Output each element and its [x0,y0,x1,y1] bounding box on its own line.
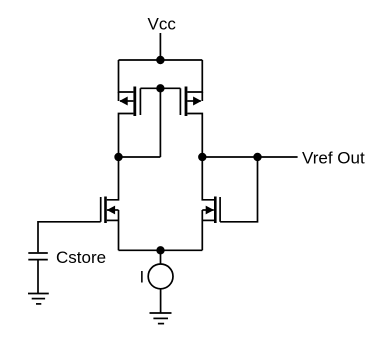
current source I (circle) [148,264,173,289]
wire current source to ground [160,289,162,313]
M2 body line [201,92,203,101]
M4 gate lead [220,157,257,222]
wire Vcc stem [159,33,161,60]
node gate feedback dot [253,153,261,161]
M1 body line [118,92,120,101]
M1 drain stub [119,114,134,158]
M2 gate lead [160,87,180,89]
M2 gate bar [179,88,181,115]
M3 source stub [107,219,119,221]
node left mid junction dot [114,153,122,161]
M1 channel bar [133,87,136,117]
wire M3 gate to Cstore [38,222,101,252]
Cstore top plate [28,252,48,254]
node right mid junction dot [198,153,206,161]
wire mirror node horizontal [119,156,161,158]
node Vcc junction dot [156,56,164,64]
M4 channel bar [214,197,217,224]
M2 body arrow [193,97,201,106]
M3 drain stub [107,157,119,200]
M4 body line [202,209,214,211]
M2 source stub [187,60,202,92]
wire Cstore to ground [37,260,39,293]
M3 channel bar [104,197,107,224]
M1 gate bar [139,88,141,115]
M1 source stub [119,60,134,92]
svg-text:Vref Out: Vref Out [302,148,365,167]
wire gates to mirror node [159,88,161,157]
capacitor Cstore [28,253,48,260]
node tail junction dot [156,246,164,254]
wire tail to current source [160,250,162,264]
M4 gate bar [219,197,221,222]
svg-text:I: I [140,268,145,287]
Cstore bottom plate [28,259,48,261]
wire tail rail [119,249,203,251]
ground (bottom, under current source) [150,313,172,324]
transistor M4 (right NMOS) [202,157,257,250]
M4 source stub [202,219,214,221]
wire Vcc rail [119,59,203,61]
svg-text:Cstore: Cstore [56,248,106,267]
transistor M1 (left PMOS) [119,60,161,157]
M1 body arrow [119,97,127,106]
M4 body arrow [206,206,214,215]
node gates junction dot [156,84,164,92]
ground (left, under Cstore) [28,294,49,304]
transistor M2 (right PMOS) [160,60,202,157]
M3 body line [107,209,119,211]
svg-text:Vcc: Vcc [148,15,177,34]
transistor M3 (left NMOS) [101,157,119,250]
M3 body arrow [107,206,115,215]
M2 drain stub [187,114,202,158]
M1 gate lead [140,87,160,89]
M4 drain stub [202,157,214,200]
M3 gate bar [100,197,102,222]
M2 channel bar [185,87,188,117]
wire Vref Out line [202,156,297,158]
